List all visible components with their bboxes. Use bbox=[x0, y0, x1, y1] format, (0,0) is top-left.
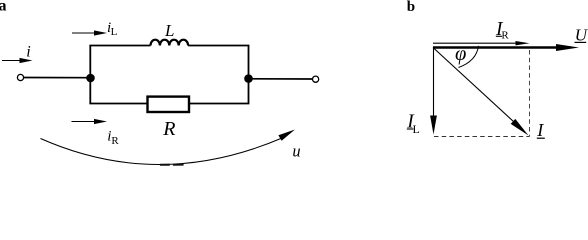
svg-text:b: b bbox=[407, 0, 415, 15]
svg-text:R: R bbox=[162, 118, 175, 140]
node left bbox=[86, 74, 95, 83]
dashed horizontal bbox=[434, 136, 530, 138]
current arrow iR bbox=[72, 119, 108, 124]
label U bbox=[575, 26, 588, 45]
voltage arc u bbox=[41, 130, 296, 165]
arc thick segment 2 bbox=[173, 164, 184, 166]
arc thick segment 1 bbox=[160, 164, 170, 166]
label iL bbox=[107, 20, 118, 38]
resistor R bbox=[148, 97, 190, 112]
current arrow iL bbox=[72, 30, 107, 35]
phasor I bbox=[433, 48, 529, 136]
wire output bbox=[249, 78, 313, 80]
svg-text:L: L bbox=[413, 122, 420, 136]
svg-text:I: I bbox=[536, 120, 544, 140]
phasor U bbox=[433, 44, 579, 51]
svg-text:R: R bbox=[501, 29, 509, 41]
wire top branch right bbox=[188, 45, 249, 47]
wire right branch bbox=[248, 46, 250, 104]
inductor L bbox=[151, 40, 189, 46]
current arrow i bbox=[2, 58, 33, 63]
svg-text:i: i bbox=[26, 44, 30, 61]
node right bbox=[244, 74, 253, 83]
label I bbox=[536, 120, 545, 140]
phasor IL bbox=[430, 48, 437, 135]
wire input bbox=[24, 77, 91, 79]
svg-text:L: L bbox=[111, 26, 118, 38]
angle phi arc bbox=[459, 46, 479, 68]
terminal right bbox=[313, 76, 319, 82]
phasor IR bbox=[433, 41, 530, 45]
dashed vertical bbox=[529, 50, 531, 137]
terminal left bbox=[17, 74, 23, 80]
wire top branch left bbox=[89, 45, 150, 47]
label IL bbox=[406, 112, 420, 136]
svg-text:φ: φ bbox=[455, 43, 466, 65]
wire left branch bbox=[89, 46, 91, 104]
svg-text:L: L bbox=[164, 21, 174, 40]
svg-text:a: a bbox=[0, 0, 7, 15]
label iR bbox=[107, 128, 119, 147]
svg-text:U: U bbox=[575, 26, 588, 45]
label IR bbox=[495, 19, 509, 41]
wire bottom branch left bbox=[89, 103, 148, 105]
svg-text:R: R bbox=[111, 135, 119, 147]
wire bottom branch right bbox=[189, 103, 250, 105]
svg-text:u: u bbox=[292, 142, 300, 161]
